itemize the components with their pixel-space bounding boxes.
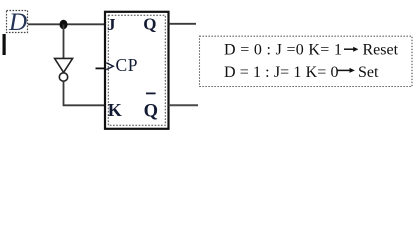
svg-text:D: D bbox=[8, 9, 27, 36]
svg-text:J: J bbox=[107, 15, 116, 34]
svg-text:CP: CP bbox=[116, 55, 139, 75]
svg-text:D = 1 : J= 1 K= 0: D = 1 : J= 1 K= 0 bbox=[224, 64, 339, 81]
svg-text:Q: Q bbox=[143, 14, 156, 33]
svg-text:K: K bbox=[108, 100, 122, 120]
svg-text:D = 0 : J =0 K= 1: D = 0 : J =0 K= 1 bbox=[224, 42, 342, 59]
svg-text:Reset: Reset bbox=[363, 42, 399, 59]
svg-text:Q: Q bbox=[144, 101, 158, 121]
svg-text:Set: Set bbox=[358, 64, 379, 81]
